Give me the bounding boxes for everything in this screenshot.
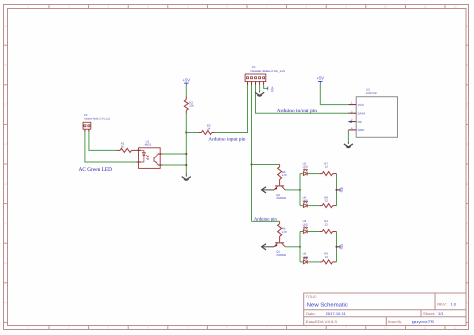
svg-text:22: 22: [325, 255, 329, 259]
wire R2 to junction: [185, 114, 187, 133]
ic U2 DHT22: [348, 88, 397, 138]
svg-text:Date:: Date:: [306, 312, 316, 316]
ground DHT22: [344, 142, 353, 148]
junction collector rail lower: [299, 246, 301, 248]
wire P1 pin5 to +5V: [264, 85, 268, 88]
svg-text:EasyEDA V4.9.3: EasyEDA V4.9.3: [306, 320, 337, 324]
svg-text:22: 22: [325, 222, 329, 226]
svg-text:C: C: [466, 103, 468, 107]
power +5V P1 pin5: [268, 86, 274, 93]
junction U1 emitter: [185, 164, 187, 166]
junction collector rail upper: [299, 189, 301, 191]
junction U1 collector: [185, 153, 187, 155]
resistor R7 22: [307, 161, 336, 175]
header P2: [83, 113, 111, 131]
svg-text:+5V: +5V: [317, 76, 325, 81]
wire LED left rail upper: [299, 174, 301, 206]
resistor R2 22k: [184, 97, 194, 114]
svg-text:12: 12: [453, 5, 457, 9]
resistor R3 1k: [186, 123, 215, 134]
netport arrow Q1 emitter: [262, 244, 274, 250]
svg-text:D: D: [4, 142, 6, 146]
optocoupler U1 4N25: [136, 139, 162, 168]
wire P2 pin1 to U1 cathode: [85, 132, 136, 163]
svg-text:11: 11: [424, 5, 427, 9]
resistor R6 470: [278, 165, 287, 186]
svg-text:D: D: [466, 142, 468, 146]
wire P2 pin2 to R1: [89, 132, 117, 151]
resistor R8 22: [307, 195, 336, 207]
junction right rail lower: [335, 246, 337, 248]
svg-text:Header-Male-2.54_1x5: Header-Male-2.54_1x5: [251, 70, 286, 73]
svg-text:LED: LED: [303, 199, 308, 203]
svg-text:+5V: +5V: [183, 77, 191, 82]
power +5V DHT22: [317, 76, 325, 84]
svg-text:guyco75: guyco75: [412, 320, 435, 324]
LED U3: [300, 219, 308, 233]
power +5V left: [183, 77, 191, 85]
svg-text:AC Green LED: AC Green LED: [79, 167, 113, 173]
power +5V upper LED rail: [337, 186, 345, 193]
svg-text:TITLE:: TITLE:: [306, 295, 317, 299]
wire P1 pin3 to DHT22 DATA: [256, 85, 349, 113]
resistor R5 470: [278, 221, 287, 242]
netport arrow Q2 emitter: [262, 187, 274, 193]
svg-text:470: 470: [282, 173, 287, 177]
resistor R4 22: [307, 219, 336, 233]
svg-text:C: C: [4, 103, 6, 107]
svg-text:P1: P1: [252, 65, 256, 69]
ground U1: [182, 173, 191, 180]
svg-text:A: A: [466, 24, 468, 28]
wire U1 collector: [162, 153, 186, 155]
wire LED right rail upper: [336, 174, 338, 206]
svg-text:2N3904: 2N3904: [276, 253, 286, 257]
resistor R9 22: [307, 252, 336, 264]
wire branch to R6: [252, 164, 280, 166]
svg-text:Arduino in/out pin: Arduino in/out pin: [277, 108, 318, 114]
LED U6: [300, 195, 308, 207]
header P1: [245, 65, 286, 85]
svg-text:G: G: [466, 261, 468, 265]
wire Q2 collector to LED rail: [285, 189, 300, 191]
wire LED right rail lower: [336, 232, 338, 262]
svg-text:LED: LED: [303, 222, 308, 226]
svg-text:1.0: 1.0: [451, 302, 457, 306]
svg-text:Sheet:: Sheet:: [423, 312, 435, 316]
title block: [304, 293, 466, 326]
wire DHT22 GND down: [347, 130, 349, 142]
power +5V lower LED rail: [337, 243, 345, 250]
svg-text:G: G: [4, 261, 6, 265]
svg-text:New Schematic: New Schematic: [307, 302, 348, 309]
svg-text:DHT22: DHT22: [366, 91, 377, 95]
svg-text:Header-Male-2.54_1x2: Header-Male-2.54_1x2: [84, 118, 111, 121]
svg-text:2N3904: 2N3904: [276, 196, 286, 200]
wire R3 to P1 pin1: [215, 85, 248, 133]
svg-text:VCC: VCC: [358, 103, 365, 107]
wire P1 pin2 to R5: [252, 220, 280, 222]
ground P1 pin4: [255, 91, 264, 96]
svg-text:F: F: [5, 221, 7, 225]
svg-text:H: H: [4, 301, 6, 305]
svg-text:E: E: [5, 182, 7, 186]
svg-text:Arduino pin: Arduino pin: [254, 216, 277, 222]
svg-text:2017-10-11: 2017-10-11: [326, 312, 346, 316]
svg-text:A: A: [5, 24, 7, 28]
svg-text:22k: 22k: [189, 104, 194, 108]
LED U5: [300, 161, 308, 175]
junction P1 pin2 branch upper: [250, 163, 252, 165]
svg-text:LED: LED: [303, 255, 308, 259]
svg-text:11: 11: [424, 326, 427, 330]
wire P1 pin4 to ground: [259, 85, 261, 91]
svg-text:10: 10: [384, 5, 388, 9]
wire +5V to R2: [185, 86, 187, 97]
svg-text:B: B: [5, 63, 7, 67]
svg-text:F: F: [466, 221, 468, 225]
svg-text:4N25: 4N25: [145, 143, 152, 147]
wire U1 emitter: [162, 164, 186, 166]
resistor R1 2k: [117, 141, 137, 152]
svg-text:B: B: [466, 63, 468, 67]
wire junction down to U1 collector/emitter: [185, 133, 187, 174]
transistor Q2 2N3904: [274, 186, 287, 200]
svg-text:Drawn By:: Drawn By:: [388, 320, 402, 324]
wire Q1 collector to LED rail: [285, 246, 300, 248]
svg-text:P2: P2: [84, 113, 88, 117]
wire +5V to DHT22 VCC: [320, 84, 348, 105]
svg-text:10: 10: [384, 326, 388, 330]
svg-text:LED: LED: [303, 165, 308, 169]
svg-text:E: E: [466, 182, 468, 186]
wire P1 pin2 down to transistors: [251, 85, 253, 221]
junction right rail upper: [335, 189, 337, 191]
svg-text:NC: NC: [358, 120, 363, 124]
svg-text:470: 470: [282, 230, 287, 234]
wire LED left rail lower: [299, 232, 301, 262]
svg-text:+5V: +5V: [270, 86, 274, 93]
svg-text:1/1: 1/1: [438, 312, 444, 316]
svg-text:22: 22: [325, 165, 329, 169]
svg-text:DATA: DATA: [358, 111, 366, 115]
svg-text:+5V: +5V: [340, 243, 344, 250]
svg-text:REV:: REV:: [437, 302, 447, 306]
svg-text:GND: GND: [358, 128, 366, 132]
svg-text:Arduino input pin: Arduino input pin: [208, 137, 246, 143]
svg-text:12: 12: [453, 326, 457, 330]
LED U4: [300, 252, 308, 264]
junction at R2 bottom: [185, 131, 187, 133]
transistor Q1 2N3904: [274, 243, 287, 257]
svg-text:+5V: +5V: [340, 186, 344, 193]
svg-text:22: 22: [325, 199, 329, 203]
